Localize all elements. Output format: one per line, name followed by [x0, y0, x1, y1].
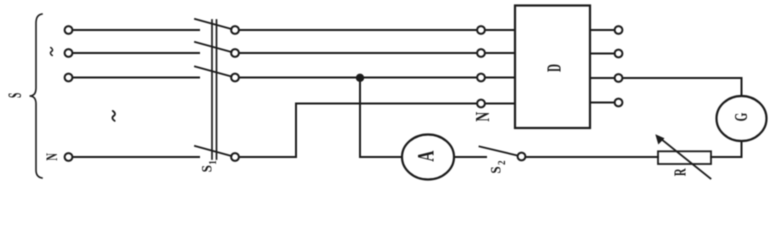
svg-text:N: N — [43, 153, 61, 161]
svg-text:1: 1 — [209, 160, 220, 165]
svg-text:2: 2 — [498, 160, 509, 165]
svg-text:S: S — [199, 165, 215, 173]
svg-text:R: R — [673, 168, 691, 176]
svg-text:G: G — [732, 112, 751, 121]
svg-text:S: S — [6, 93, 26, 98]
svg-text:S: S — [488, 166, 504, 174]
svg-text:D: D — [545, 64, 566, 72]
svg-text:N: N — [471, 111, 493, 121]
svg-text:A: A — [415, 151, 440, 162]
